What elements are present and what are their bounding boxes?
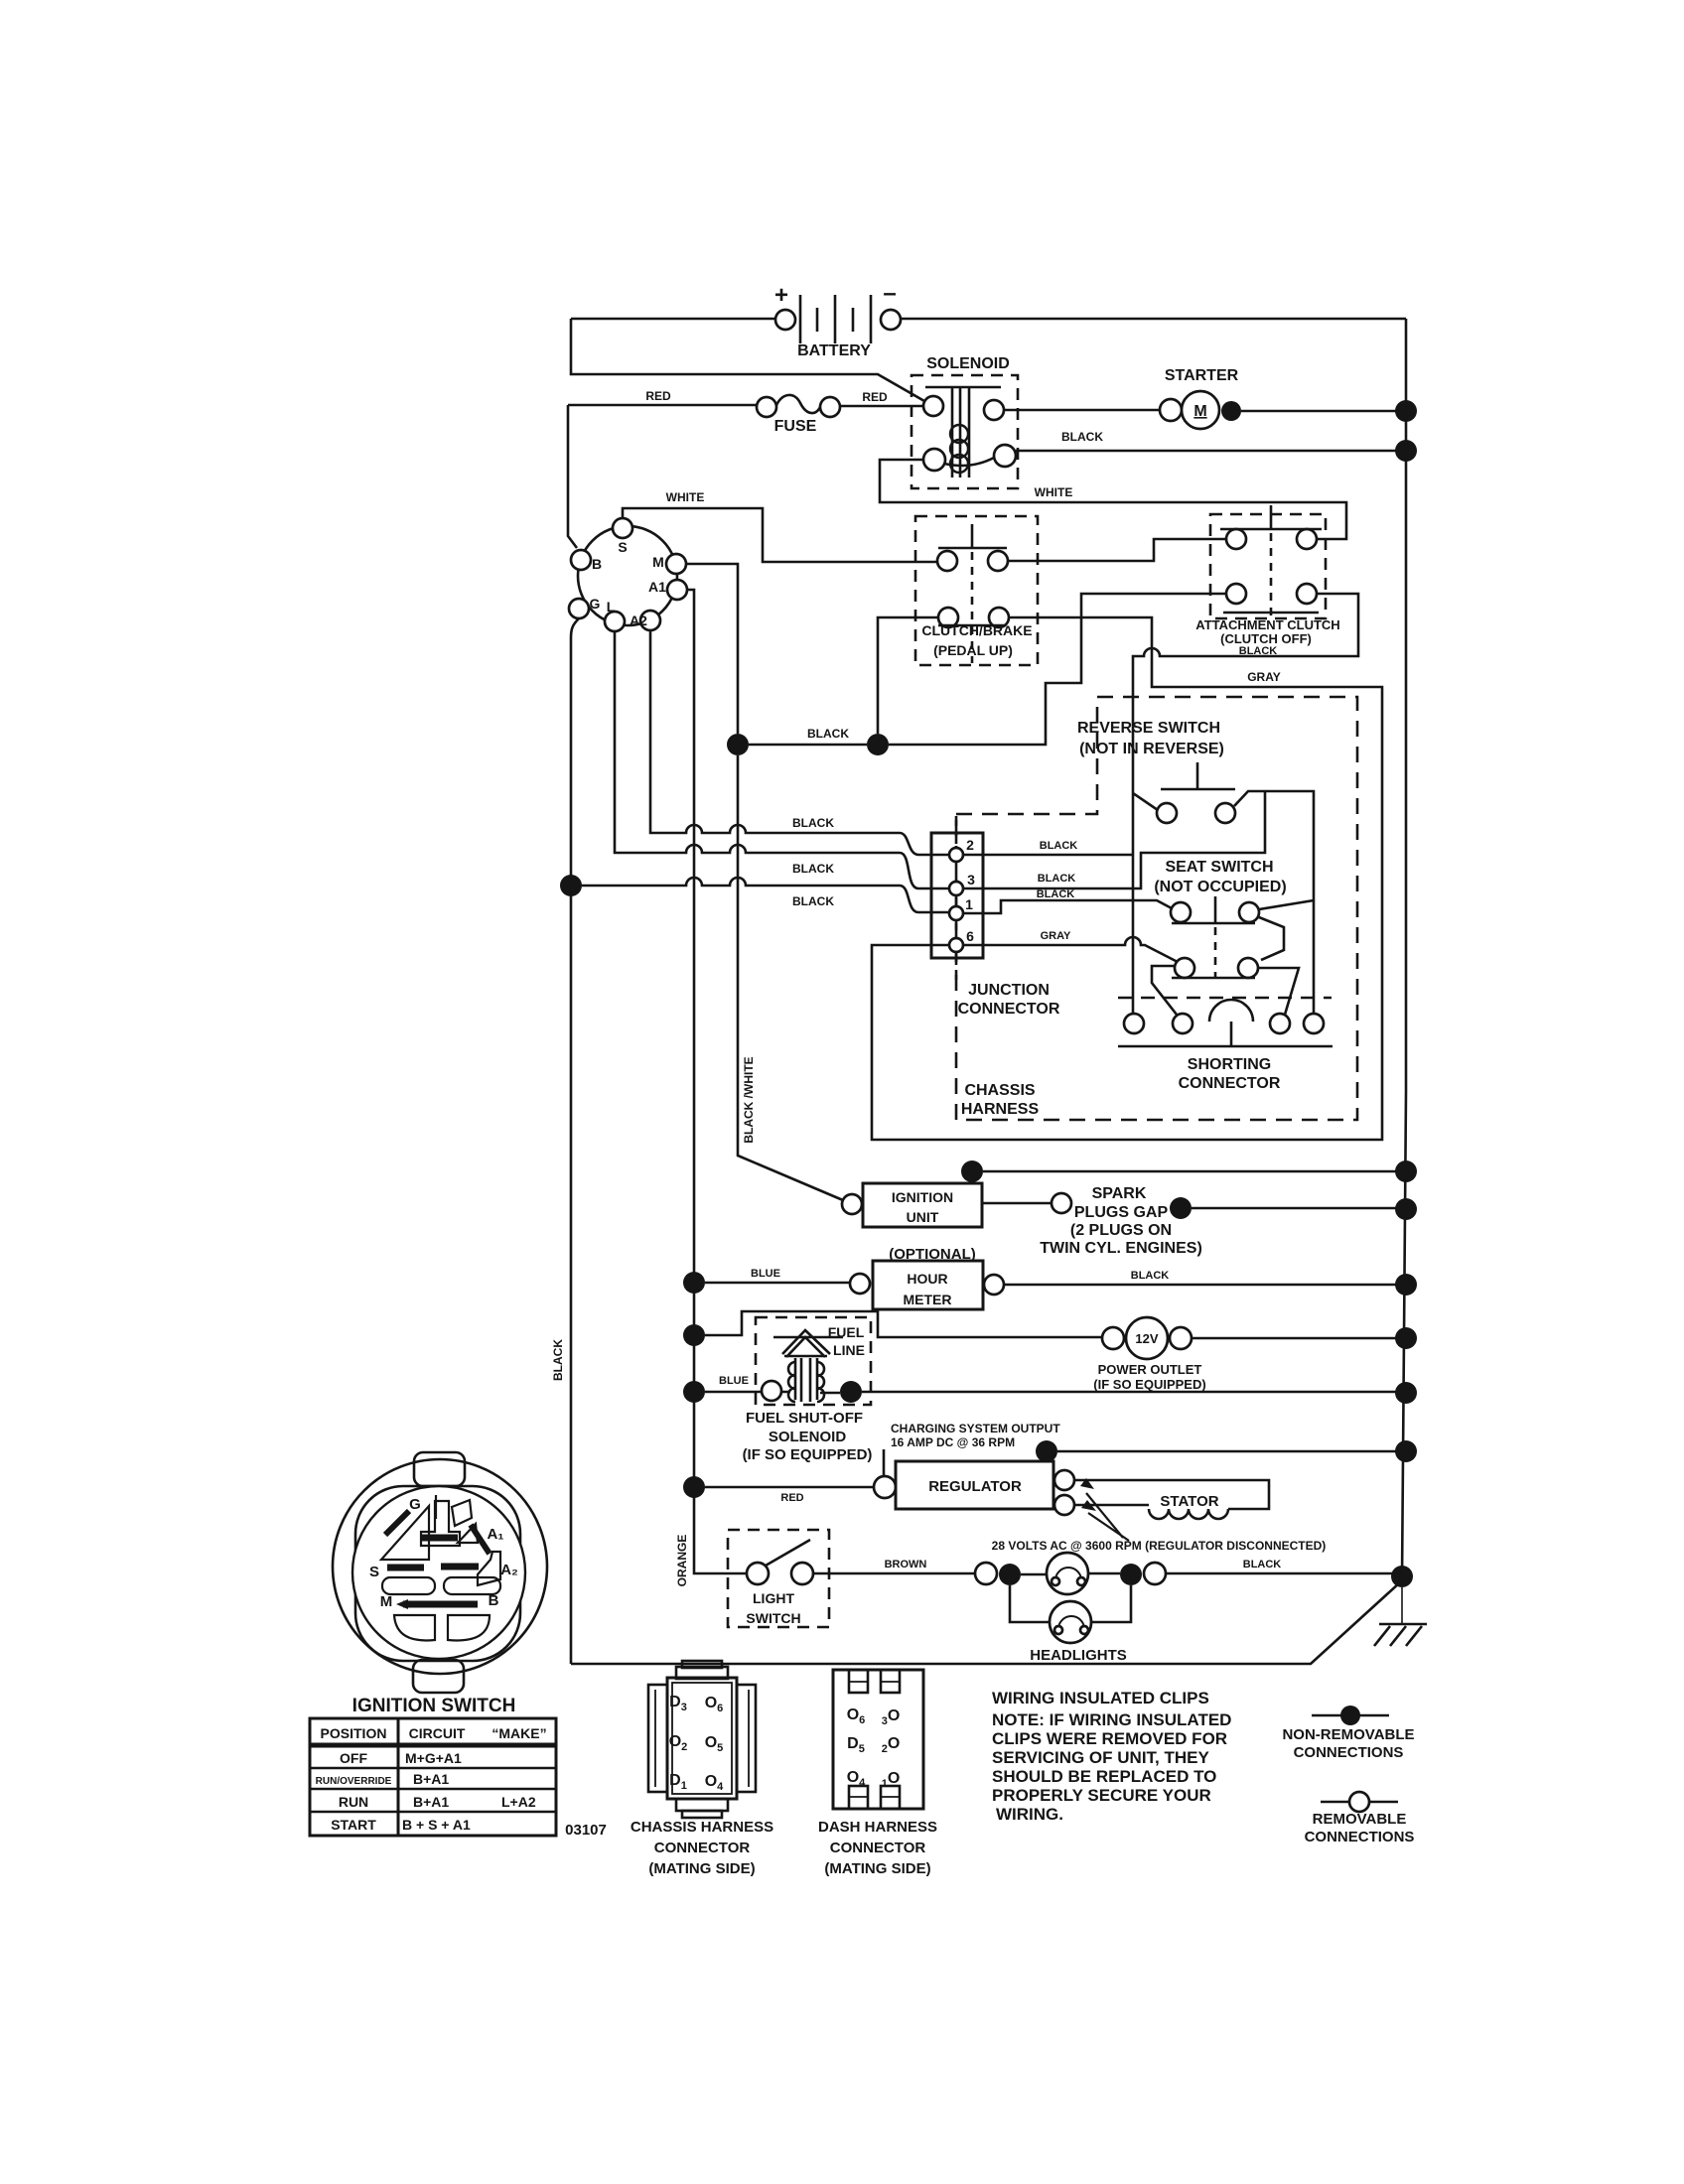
svg-text:TWIN CYL. ENGINES): TWIN CYL. ENGINES) — [1040, 1240, 1202, 1257]
svg-text:3: 3 — [967, 872, 975, 887]
svg-text:BLACK: BLACK — [1243, 1559, 1282, 1570]
svg-text:+: + — [774, 282, 788, 309]
ignition switch table — [310, 1718, 607, 1839]
svg-text:HOUR: HOUR — [907, 1271, 947, 1287]
svg-text:BROWN: BROWN — [885, 1559, 927, 1570]
battery B1 — [774, 280, 901, 359]
svg-text:BLACK: BLACK — [1037, 888, 1075, 900]
wire: A2 to junction pin 2 — [650, 630, 949, 855]
svg-text:–: – — [883, 280, 896, 307]
node: M rail junction dot — [727, 734, 749, 755]
junction connector J1 — [931, 816, 1060, 1018]
svg-text:PLUGS GAP: PLUGS GAP — [1074, 1204, 1169, 1221]
clutch/brake switch — [915, 516, 1038, 665]
svg-text:RUN: RUN — [339, 1794, 368, 1810]
node: left rail dot pin1 — [560, 875, 582, 896]
svg-text:STARTER: STARTER — [1165, 367, 1239, 384]
svg-text:RED: RED — [862, 390, 888, 404]
wire: battery top line right to rail — [901, 318, 1406, 321]
ground — [1374, 1587, 1427, 1646]
spark plugs gap — [982, 1185, 1417, 1257]
svg-text:ATTACHMENT CLUTCH: ATTACHMENT CLUTCH — [1195, 617, 1339, 632]
svg-text:1: 1 — [965, 896, 973, 912]
light switch — [728, 1530, 829, 1627]
svg-text:(CLUTCH OFF): (CLUTCH OFF) — [1220, 631, 1312, 646]
svg-text:WHITE: WHITE — [666, 490, 705, 504]
svg-text:BLACK: BLACK — [1061, 430, 1103, 444]
wire: gray clutch/brake to chassis and pin 6 — [872, 617, 1382, 1140]
svg-text:GRAY: GRAY — [1247, 670, 1281, 684]
svg-text:METER: METER — [904, 1292, 952, 1307]
svg-text:CONNECTIONS: CONNECTIONS — [1294, 1744, 1404, 1761]
svg-text:(2 PLUGS ON: (2 PLUGS ON — [1070, 1222, 1172, 1239]
headlights — [975, 1553, 1402, 1664]
svg-text:B+A1: B+A1 — [413, 1794, 449, 1810]
shorting connector — [1118, 998, 1333, 1092]
svg-text:CONNECTOR: CONNECTOR — [654, 1840, 751, 1856]
svg-text:(NOT OCCUPIED): (NOT OCCUPIED) — [1154, 879, 1286, 895]
svg-text:L+A2: L+A2 — [501, 1794, 536, 1810]
svg-text:M: M — [652, 554, 664, 570]
svg-text:M: M — [380, 1593, 393, 1610]
ignition switch face drawing — [333, 1452, 547, 1716]
svg-text:03107: 03107 — [565, 1822, 607, 1839]
svg-text:REMOVABLE: REMOVABLE — [1313, 1811, 1407, 1828]
wire: fuse feed to key switch B — [568, 405, 577, 548]
svg-text:NON-REMOVABLE: NON-REMOVABLE — [1282, 1726, 1414, 1743]
svg-text:CIRCUIT: CIRCUIT — [409, 1725, 466, 1741]
svg-text:G: G — [590, 596, 601, 612]
starter M1 — [1004, 367, 1406, 429]
svg-text:JUNCTION: JUNCTION — [968, 982, 1050, 999]
svg-text:RUN/OVERRIDE: RUN/OVERRIDE — [316, 1776, 392, 1787]
svg-text:BLACK: BLACK — [1040, 840, 1078, 852]
svg-text:LINE: LINE — [833, 1342, 865, 1358]
svg-text:(IF SO EQUIPPED): (IF SO EQUIPPED) — [743, 1446, 873, 1463]
svg-text:BLUE: BLUE — [719, 1375, 749, 1387]
svg-text:BLACK: BLACK — [792, 862, 834, 876]
seat switch — [1152, 859, 1299, 1015]
wire: light switch to headlights — [813, 1572, 975, 1575]
svg-text:GRAY: GRAY — [1041, 930, 1071, 942]
wiring insulated clips note — [992, 1689, 1231, 1824]
svg-text:6: 6 — [966, 928, 974, 944]
svg-text:B+A1: B+A1 — [413, 1771, 449, 1787]
svg-text:SPARK: SPARK — [1092, 1185, 1147, 1202]
svg-text:BATTERY: BATTERY — [797, 342, 871, 359]
svg-text:BLUE: BLUE — [751, 1268, 780, 1280]
svg-text:S: S — [618, 539, 627, 555]
svg-text:“MAKE”: “MAKE” — [491, 1725, 546, 1741]
wire: left rail to junction pin 1 — [582, 878, 949, 912]
legend: non-removable connection — [1282, 1706, 1414, 1761]
svg-text:FUSE: FUSE — [774, 418, 817, 435]
svg-text:G: G — [409, 1496, 421, 1513]
svg-text:CLIPS WERE REMOVED FOR: CLIPS WERE REMOVED FOR — [992, 1729, 1227, 1748]
svg-text:SEAT SWITCH: SEAT SWITCH — [1165, 859, 1273, 876]
svg-text:BLACK: BLACK — [1038, 873, 1076, 885]
svg-text:BLACK: BLACK — [792, 894, 834, 908]
svg-text:SHORTING: SHORTING — [1188, 1056, 1271, 1073]
svg-text:A₂: A₂ — [500, 1562, 518, 1578]
svg-text:PROPERLY SECURE YOUR: PROPERLY SECURE YOUR — [992, 1786, 1211, 1805]
svg-text:A₁: A₁ — [487, 1526, 503, 1543]
svg-text:IGNITION: IGNITION — [892, 1189, 953, 1205]
svg-text:CHARGING SYSTEM OUTPUT: CHARGING SYSTEM OUTPUT — [891, 1422, 1060, 1435]
svg-text:ORANGE: ORANGE — [675, 1535, 689, 1587]
wire: attachment clutch black return — [1133, 594, 1358, 1014]
svg-text:16 AMP DC @ 36 RPM: 16 AMP DC @ 36 RPM — [891, 1435, 1015, 1449]
svg-text:BLACK /WHITE: BLACK /WHITE — [742, 1056, 756, 1143]
svg-text:28 VOLTS AC @ 3600 RPM (REGULA: 28 VOLTS AC @ 3600 RPM (REGULATOR DISCON… — [992, 1539, 1327, 1553]
reverse switch — [1077, 720, 1314, 1014]
svg-text:BLACK: BLACK — [551, 1339, 565, 1381]
wire: L to junction pin 3 — [615, 631, 949, 888]
node: rail ground dot — [1391, 1566, 1413, 1587]
svg-text:BLACK: BLACK — [792, 816, 834, 830]
svg-text:NOTE: IF WIRING INSULATED: NOTE: IF WIRING INSULATED — [992, 1710, 1231, 1729]
svg-text:OFF: OFF — [340, 1750, 367, 1766]
svg-text:SERVICING OF UNIT, THEY: SERVICING OF UNIT, THEY — [992, 1748, 1209, 1767]
wire: junction node to attachment bottom left — [889, 594, 1226, 745]
charging system label — [884, 1422, 1060, 1477]
svg-text:START: START — [331, 1817, 376, 1833]
svg-text:HARNESS: HARNESS — [961, 1101, 1040, 1118]
svg-text:CHASSIS HARNESS: CHASSIS HARNESS — [631, 1819, 773, 1836]
stator — [1074, 1480, 1269, 1519]
svg-text:B: B — [489, 1592, 499, 1609]
svg-text:POSITION: POSITION — [321, 1725, 387, 1741]
svg-text:CHASSIS: CHASSIS — [964, 1082, 1035, 1099]
svg-text:CONNECTOR: CONNECTOR — [830, 1840, 926, 1856]
svg-text:SWITCH: SWITCH — [746, 1610, 800, 1626]
solenoid K1 — [912, 355, 1018, 488]
svg-text:(MATING SIDE): (MATING SIDE) — [648, 1860, 755, 1877]
svg-text:BLACK: BLACK — [1131, 1270, 1170, 1282]
svg-text:RED: RED — [780, 1492, 803, 1504]
svg-text:B + S + A1: B + S + A1 — [402, 1817, 471, 1833]
svg-text:REVERSE SWITCH: REVERSE SWITCH — [1077, 720, 1220, 737]
svg-text:CONNECTOR: CONNECTOR — [1179, 1075, 1281, 1092]
svg-text:BLACK: BLACK — [807, 727, 849, 741]
node: chassis junction dot — [867, 734, 889, 755]
svg-text:WIRING INSULATED CLIPS: WIRING INSULATED CLIPS — [992, 1689, 1209, 1707]
svg-text:LIGHT: LIGHT — [753, 1590, 794, 1606]
fuel shut-off solenoid — [683, 1375, 1417, 1463]
hour meter — [683, 1246, 1417, 1309]
svg-text:CONNECTOR: CONNECTOR — [958, 1001, 1060, 1018]
svg-text:L: L — [607, 599, 616, 614]
svg-text:POWER OUTLET: POWER OUTLET — [1098, 1362, 1202, 1377]
legend: removable connection — [1305, 1792, 1415, 1845]
svg-text:B: B — [592, 556, 602, 572]
wire: A1 terminal rail down to light switch — [687, 590, 747, 1573]
svg-text:SHOULD BE REPLACED TO: SHOULD BE REPLACED TO — [992, 1767, 1216, 1786]
node: rail dot starter row — [1395, 400, 1417, 422]
regulator — [683, 1440, 1417, 1515]
svg-text:SOLENOID: SOLENOID — [769, 1429, 847, 1445]
fuse F1 — [568, 389, 923, 435]
svg-text:12V: 12V — [1135, 1331, 1158, 1346]
wire: pin 6 gray to seat switch — [963, 937, 1178, 962]
svg-text:SOLENOID: SOLENOID — [926, 355, 1010, 372]
wire: pin 3 to reverse/seat net — [963, 791, 1265, 888]
wire: black between junction dots — [749, 744, 867, 747]
dash harness connector (mating side) — [818, 1670, 937, 1877]
svg-text:STATOR: STATOR — [1160, 1493, 1218, 1510]
wire: clutch/brake bottom left to junction node — [878, 617, 938, 734]
ignition unit — [842, 1160, 1417, 1227]
wire: right rail — [1402, 319, 1406, 1580]
svg-text:DASH HARNESS: DASH HARNESS — [818, 1819, 937, 1836]
arrows to stator terminals — [992, 1478, 1327, 1553]
svg-text:M+G+A1: M+G+A1 — [405, 1750, 462, 1766]
wire: G terminal left rail down — [571, 618, 579, 1664]
wire: battery to solenoid feed — [571, 319, 924, 401]
chassis harness dashed boundary — [956, 697, 1357, 1120]
svg-text:(IF SO EQUIPPED): (IF SO EQUIPPED) — [1093, 1377, 1205, 1392]
ignition key switch SW1 — [569, 518, 687, 631]
svg-text:M: M — [1193, 403, 1206, 420]
wire: bottom return line — [571, 1582, 1400, 1664]
wire: solenoid black output to rail — [1016, 450, 1406, 453]
attachment clutch switch — [1195, 505, 1339, 657]
wire: pin 2 to reverse switch — [963, 854, 1133, 857]
svg-text:(MATING SIDE): (MATING SIDE) — [824, 1860, 930, 1877]
svg-text:HEADLIGHTS: HEADLIGHTS — [1030, 1647, 1127, 1664]
wire: clutch/brake top right to attachment clutch — [1008, 539, 1226, 561]
fuel line assembly — [683, 1311, 1102, 1405]
svg-text:RED: RED — [645, 389, 671, 403]
svg-text:FUEL SHUT-OFF: FUEL SHUT-OFF — [746, 1410, 863, 1427]
wire: pin 1 to seat switch — [963, 900, 1172, 913]
svg-text:UNIT: UNIT — [907, 1209, 939, 1225]
chassis harness connector (mating side) — [631, 1661, 773, 1877]
svg-text:WHITE: WHITE — [1035, 485, 1073, 499]
svg-text:WIRING.: WIRING. — [996, 1805, 1063, 1824]
svg-text:REGULATOR: REGULATOR — [928, 1478, 1022, 1495]
wire: battery top line left — [571, 318, 775, 321]
svg-text:IGNITION SWITCH: IGNITION SWITCH — [352, 1696, 516, 1716]
12V power outlet — [1093, 1317, 1417, 1392]
wire: M terminal down to ignition unit — [686, 564, 843, 1200]
svg-text:CLUTCH/BRAKE: CLUTCH/BRAKE — [921, 622, 1032, 638]
svg-text:(PEDAL UP): (PEDAL UP) — [933, 642, 1013, 658]
svg-text:(NOT IN REVERSE): (NOT IN REVERSE) — [1079, 741, 1224, 757]
wire: S white to clutch/brake — [623, 508, 937, 562]
svg-text:CONNECTIONS: CONNECTIONS — [1305, 1829, 1415, 1845]
wire: solenoid white output — [880, 460, 1346, 539]
svg-text:2: 2 — [966, 837, 974, 853]
svg-text:A1: A1 — [648, 579, 666, 595]
node: rail dot solenoid black row — [1395, 440, 1417, 462]
svg-text:A2: A2 — [630, 613, 647, 628]
svg-text:S: S — [369, 1564, 379, 1580]
